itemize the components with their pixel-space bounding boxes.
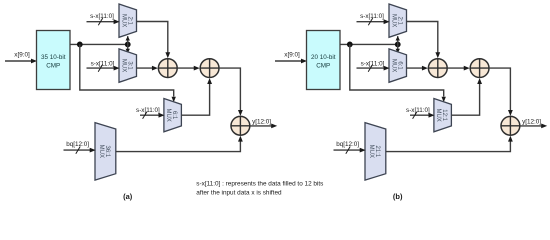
xor gate X2a bbox=[200, 59, 219, 78]
svg-text:bq[12:0]: bq[12:0] bbox=[66, 141, 89, 148]
svg-text:s-x[11:0]: s-x[11:0] bbox=[136, 107, 160, 114]
wire 2:1 mux output to xor1 top (a) bbox=[137, 22, 171, 59]
svg-text:21:1MUX: 21:1MUX bbox=[368, 145, 380, 158]
wire big mux output up into xor3 bottom (a) bbox=[116, 136, 243, 152]
svg-text:(b): (b) bbox=[393, 192, 403, 201]
wire s-x[11:0] into second mux (b) bbox=[357, 65, 390, 72]
xor gate X1b bbox=[428, 59, 447, 78]
wire comparator output (b) bbox=[340, 43, 398, 45]
mux M6b (12:1 MUX) bbox=[434, 99, 452, 132]
wire xor1 to xor2 (b) bbox=[447, 66, 470, 71]
svg-text:y[12:0]: y[12:0] bbox=[252, 119, 271, 126]
mux M2a (2:1 MUX) bbox=[119, 4, 137, 37]
wire third mux output up into xor2 bottom (a) bbox=[181, 78, 212, 115]
mux M3a (3:1 MUX) bbox=[119, 49, 137, 82]
wire second mux output into xor1 (b) bbox=[407, 66, 428, 71]
wire xor3 output y[12:0] (b) bbox=[520, 124, 547, 129]
svg-text:y[12:0]: y[12:0] bbox=[522, 119, 541, 126]
wire comparator output (a) bbox=[70, 43, 128, 45]
mux M36a (36:1 MUX) bbox=[95, 123, 116, 181]
svg-text:s-x[11:0]: s-x[11:0] bbox=[361, 60, 385, 67]
svg-text:after the input data x is shif: after the input data x is shifted bbox=[196, 190, 282, 197]
svg-text:(a): (a) bbox=[123, 192, 133, 201]
xor gate X1a bbox=[158, 59, 177, 78]
wire s-x[11:0] into 2:1 mux (a) bbox=[87, 18, 120, 25]
xor gate X3b bbox=[501, 116, 520, 135]
svg-text:s-x[11:0]: s-x[11:0] bbox=[91, 60, 115, 67]
wire second mux output into xor1 (a) bbox=[137, 66, 158, 71]
svg-text:x[9:0]: x[9:0] bbox=[284, 52, 300, 59]
wire connector J2 into both top muxes (b) bbox=[396, 36, 400, 53]
junction node J1 (a) bbox=[77, 42, 83, 48]
svg-text:36:1MUX: 36:1MUX bbox=[98, 145, 110, 158]
mux M3b (6:1 MUX) bbox=[389, 49, 407, 82]
wire 2:1 mux output to xor1 top (b) bbox=[407, 22, 441, 59]
comparator block 35 10-bit CMP (a) bbox=[37, 31, 71, 90]
wire xor1 to xor2 (a) bbox=[177, 66, 200, 71]
wire branch J1 down into third mux top (b) bbox=[350, 44, 446, 102]
wire x[9:0] into comparator (b) bbox=[275, 59, 307, 64]
svg-text:12:1MUX: 12:1MUX bbox=[435, 108, 447, 121]
wire bq[12:0] into big mux (a) bbox=[64, 147, 96, 154]
junction node J2 (b) bbox=[395, 42, 401, 48]
mux M2b (2:1 MUX) bbox=[389, 4, 407, 37]
wire s-x[11:0] into third mux (b) bbox=[410, 112, 435, 119]
wire connector J2 into both top muxes (a) bbox=[126, 36, 130, 53]
comparator block 20 10-bit CMP (b) bbox=[307, 31, 341, 90]
junction node J1 (b) bbox=[347, 42, 353, 48]
svg-text:CMP: CMP bbox=[316, 62, 330, 69]
xor gate X2b bbox=[470, 59, 489, 78]
wire branch J1 down into third mux top (a) bbox=[80, 44, 176, 102]
svg-text:CMP: CMP bbox=[46, 62, 60, 69]
svg-text:x[9:0]: x[9:0] bbox=[14, 52, 30, 59]
wire s-x[11:0] into 2:1 mux (b) bbox=[357, 18, 390, 25]
wire xor2 output down to xor3 top (a) bbox=[219, 68, 243, 116]
mux M6a (6:1 MUX) bbox=[164, 99, 182, 132]
svg-text:35 10-bit: 35 10-bit bbox=[41, 54, 66, 61]
wire s-x[11:0] into third mux (a) bbox=[140, 112, 165, 119]
wire big mux output up into xor3 bottom (b) bbox=[386, 136, 513, 152]
wire x[9:0] into comparator (a) bbox=[5, 59, 37, 64]
svg-text:bq[12:0]: bq[12:0] bbox=[336, 141, 359, 148]
svg-text:20 10-bit: 20 10-bit bbox=[311, 54, 336, 61]
wire xor2 output down to xor3 top (b) bbox=[489, 68, 513, 116]
mux M36b (21:1 MUX) bbox=[365, 123, 386, 181]
wire xor3 output y[12:0] (a) bbox=[250, 124, 277, 129]
svg-text:s-x[11:0] : represents the dat: s-x[11:0] : represents the data filled t… bbox=[196, 180, 323, 187]
svg-text:s-x[11:0]: s-x[11:0] bbox=[406, 107, 430, 114]
junction node J2 (a) bbox=[125, 42, 131, 48]
wire third mux output up into xor2 bottom (b) bbox=[451, 78, 482, 115]
wire s-x[11:0] into second mux (a) bbox=[87, 65, 120, 72]
wire bq[12:0] into big mux (b) bbox=[334, 147, 366, 154]
xor gate X3a bbox=[231, 116, 250, 135]
